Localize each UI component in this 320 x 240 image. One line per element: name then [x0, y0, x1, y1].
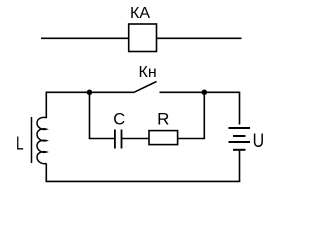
wire: right lead of relay coil KA	[157, 37, 242, 39]
label C	[113, 111, 125, 129]
wire: left branch lower segment	[45, 163, 47, 181]
wire: left lead of relay coil KA	[41, 37, 129, 39]
node: junction dot right	[202, 90, 208, 96]
wire: bottom wire of loop	[46, 180, 241, 182]
battery U plate 2 (short)	[233, 135, 246, 137]
relay coil KA (box)	[129, 24, 157, 52]
label U	[253, 129, 265, 151]
wire: inner branch to capacitor	[89, 138, 115, 140]
label Kn	[139, 64, 157, 81]
svg-text:R: R	[157, 110, 169, 129]
battery U plate 3 (long)	[229, 141, 251, 143]
capacitor C (plates)	[115, 130, 122, 149]
node: junction dot left	[87, 90, 93, 96]
svg-text:C: C	[113, 111, 125, 129]
wire: capacitor to resistor	[122, 138, 150, 140]
svg-text:L: L	[16, 134, 24, 154]
wire: battery to bottom wire	[239, 151, 241, 182]
label KA	[130, 5, 150, 22]
svg-text:U: U	[253, 129, 265, 151]
label R	[157, 110, 169, 129]
svg-text:Кн: Кн	[139, 64, 157, 81]
wire: inner branch left vertical	[89, 92, 91, 138]
battery U plate 4 (short)	[233, 149, 246, 151]
inductor L core line	[31, 117, 33, 163]
wire: top-left segment of loop (corner to switch)	[46, 92, 134, 118]
label L	[16, 134, 24, 154]
svg-text:КА: КА	[130, 5, 150, 22]
resistor R (box)	[149, 131, 178, 145]
inductor L (coil)	[37, 117, 46, 163]
switch Kn (blade)	[134, 82, 157, 93]
battery U plate 1 (long)	[229, 127, 251, 129]
wire: top-right segment of loop (switch to corner)	[160, 92, 240, 124]
wire: resistor to inner branch right vertical	[178, 92, 205, 138]
